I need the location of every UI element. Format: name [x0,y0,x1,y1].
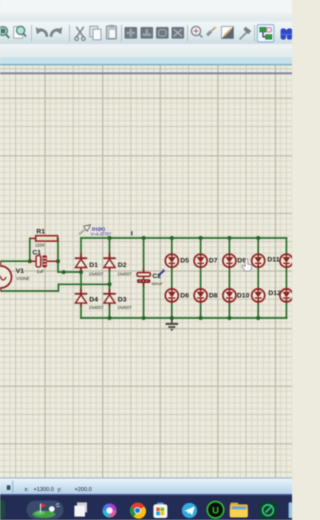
hand cursor at D9 [242,259,252,271]
junction node on AC wire [62,270,66,274]
taskbar file explorer [230,503,248,518]
svg-text:1N4007: 1N4007 [89,305,104,310]
svg-text:D7: D7 [209,258,218,265]
svg-text:D1: D1 [89,262,98,269]
wire DC- bottom rail [81,317,286,319]
toolbar icon: paste [106,25,116,39]
svg-text:1uF: 1uF [37,269,45,274]
ground [166,318,179,330]
svg-text:D8: D8 [209,293,218,300]
taskbar copilot [103,504,117,518]
wire R1/C1 right vertical [57,238,59,261]
LED D11 [252,254,280,267]
wire LED column 1 [171,238,173,318]
junction node bottom rail LED col4 [256,316,260,320]
toolbar separators [32,25,255,42]
LED D13 (right edge) [280,254,293,267]
tooltip text D1(K) [91,227,112,237]
svg-text:x:: x: [25,487,30,493]
taskbar start sliver [0,500,5,519]
capacitor C1 1uF [30,249,58,273]
toolbar icon: undo [36,27,47,37]
junction node top rail LED col3 [227,236,231,240]
LED D5 [165,254,189,267]
svg-text:VSINE: VSINE [16,276,30,281]
wire C1 output down and right to bridge column 1 [58,261,81,272]
junction node top rail C2 [142,236,146,240]
junction node bottom rail LED col3 [227,316,231,320]
toolbar icon: zoom select (cut at edge) [0,27,9,38]
svg-text:D5: D5 [180,258,189,265]
toolbar icon: block delete [172,27,185,39]
svg-text:D2: D2 [118,262,127,269]
diode D3 1N4007 [103,289,132,310]
toolbar icon: cut [75,27,85,41]
taskbar telegram [182,503,197,518]
svg-text:D11: D11 [267,257,279,264]
toolbar icon: block rotate [156,27,169,39]
svg-text:V=4.47707: V=4.47707 [91,231,112,236]
toolbar icon: block copy [141,27,154,39]
LED D12 [252,289,281,302]
wire bridge column 1 [80,238,82,318]
LED D7 [194,254,218,267]
LED D9 [223,254,246,267]
svg-text:D6: D6 [180,293,189,300]
svg-text:1N4007: 1N4007 [117,305,132,310]
junction node bridge col1 mid [79,270,83,274]
svg-text:D3: D3 [118,297,127,304]
taskbar green app [259,502,278,520]
wire LED column 5 [285,238,287,318]
wire bridge column 2 [109,238,111,318]
LED D6 [165,289,189,302]
toolbar icon: edit sheet [222,27,234,39]
svg-text:115K: 115K [35,243,45,248]
wire LED column 4 [257,238,259,318]
svg-text:1N4007: 1N4007 [89,271,104,276]
svg-text:R1: R1 [36,229,45,236]
junction node R1/C1 left [28,259,32,263]
toolbar icon: design explorer (hammer) [240,27,252,40]
diode D1 1N4007 [75,253,104,276]
LED D10 [223,289,250,302]
LED D14 (right edge) [280,289,293,302]
junction node bottom rail LED col2 [199,316,203,320]
toolbar icon: redo [51,27,62,37]
wire V1 bottom to bridge column 2 [1,284,110,291]
taskbar right sliver [289,502,292,518]
wire DC+ top rail [81,237,286,239]
stray mark [131,231,132,235]
resistor R1 [30,229,58,248]
svg-text:y:: y: [58,487,63,493]
junction node top rail LED col2 [199,236,203,240]
toolbar icon: copy [90,26,101,40]
voltage source V1 VSINE [0,261,30,291]
wire LED column 3 [228,238,230,318]
wire V1 top to R1/C1 left node [1,260,30,262]
LED D8 [194,289,218,302]
toolbar icon: zoom sheet [14,26,26,38]
svg-text:1N4007: 1N4007 [117,271,132,276]
diode D2 1N4007 [103,253,132,276]
capacitor C2 680uF [137,269,163,287]
junction node top rail LED col1 [170,236,174,240]
blue pencil cursor near C2 [158,269,166,277]
junction node bottom rail LED col1 / ground [170,316,174,320]
toolbar icon: block move [125,27,138,39]
junction node bridge col2 mid [108,282,112,286]
junction node top rail col2 [108,236,112,240]
junction node bottom rail C2 [142,316,146,320]
svg-text:U: U [212,505,219,516]
diode D4 1N4007 [75,289,104,310]
toolbar icon: find (binoculars, cut at edge) [281,28,293,39]
toolbar icon: instant edit [206,26,217,36]
taskbar white cube [74,502,87,516]
taskbar IDM/U [207,502,223,518]
taskbar golf game (hover pill) [27,501,64,520]
junction node bottom rail col2 [108,316,112,320]
junction node top rail LED col4 [256,236,260,240]
svg-text:680uF: 680uF [152,281,164,286]
junction node R1/C1 right [56,259,60,263]
sheet border line [0,72,292,74]
svg-text:+1300.0: +1300.0 [34,487,54,493]
wire LED column 2 [200,238,202,318]
svg-text:D10: D10 [237,293,250,300]
cursor arrow (NE) at D1 tooltip [79,225,91,235]
svg-text:C1: C1 [32,249,41,256]
wire R1/C1 left vertical [29,238,31,261]
toolbar icon: netlist to ARES (active) [257,25,274,42]
wire C2 column [143,238,145,318]
svg-text:D4: D4 [89,297,98,304]
svg-text:+200.0: +200.0 [75,487,92,493]
svg-text:V1: V1 [16,268,25,275]
taskbar microsoft store [153,503,167,518]
toolbar icon: zoom redraw [191,26,202,37]
taskbar chrome [130,502,146,518]
